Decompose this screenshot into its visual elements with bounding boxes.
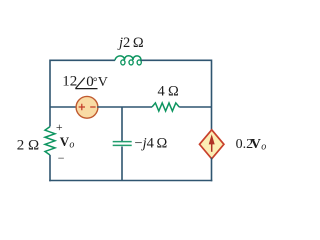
capacitor −j4Ω plates: [113, 142, 132, 146]
svg-text:V: V: [60, 134, 70, 149]
wire bottom rail: [49, 180, 212, 182]
wire left vertical lower: [49, 155, 51, 181]
resistor 4Ω (horizontal zigzag): [152, 103, 179, 111]
wire top rail right segment: [141, 59, 212, 61]
svg-text:4Ω: 4Ω: [158, 84, 179, 100]
svg-text:−j4Ω: −j4Ω: [134, 135, 167, 151]
wire mid rail right segment: [179, 106, 211, 108]
svg-text:2 Ω: 2 Ω: [17, 137, 39, 153]
svg-text:V: V: [98, 75, 108, 90]
dependent current source 0.2Vo (diamond): [200, 130, 224, 159]
svg-text:+: +: [56, 120, 63, 134]
wire middle vertical lower: [121, 147, 123, 181]
wire mid rail left segment: [50, 106, 76, 108]
resistor 2Ω (vertical zigzag): [45, 127, 55, 155]
label 12∠0° V: [62, 74, 108, 91]
svg-text:o: o: [69, 140, 74, 151]
voltage source 12∠0° V (circle): [76, 96, 98, 118]
svg-text:−: −: [58, 151, 65, 165]
wire right vertical lower: [211, 158, 213, 182]
svg-text:12: 12: [62, 74, 77, 90]
svg-text:V: V: [251, 137, 261, 152]
wire right vertical upper: [211, 60, 213, 132]
inductor j2Ω: [115, 56, 141, 65]
wire left vertical upper: [49, 60, 51, 127]
wire mid rail middle segment: [97, 106, 152, 108]
wire top rail left segment: [50, 59, 115, 61]
svg-text:j2Ω: j2Ω: [117, 35, 144, 51]
wire middle vertical upper (capacitor branch): [121, 107, 123, 141]
svg-text:o: o: [261, 142, 266, 153]
